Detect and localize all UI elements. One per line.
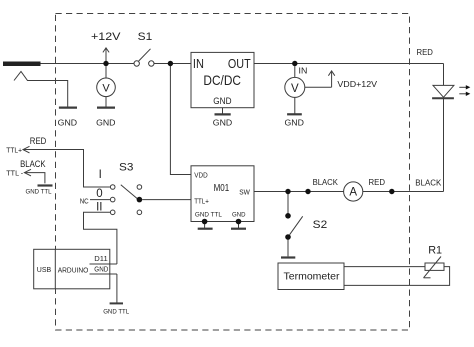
svg-text:V: V	[102, 82, 110, 94]
svg-text:ARDUINO: ARDUINO	[58, 265, 89, 274]
svg-text:GND: GND	[94, 266, 108, 273]
svg-text:R1: R1	[428, 244, 442, 256]
svg-text:Termometer: Termometer	[284, 271, 341, 282]
svg-text:GND TTL: GND TTL	[26, 189, 52, 196]
svg-text:BLACK: BLACK	[313, 178, 339, 187]
svg-text:USB: USB	[37, 265, 51, 274]
svg-text:VDD+12V: VDD+12V	[337, 80, 377, 89]
svg-text:A: A	[349, 187, 357, 199]
svg-text:DC/DC: DC/DC	[203, 73, 241, 88]
svg-text:TTL+: TTL+	[6, 146, 22, 155]
svg-text:I: I	[99, 169, 102, 181]
svg-text:D11: D11	[94, 256, 108, 263]
svg-text:IN: IN	[193, 56, 204, 71]
svg-text:GND: GND	[58, 117, 77, 127]
svg-text:0: 0	[96, 188, 102, 200]
svg-text:RED: RED	[30, 136, 47, 147]
svg-text:II: II	[96, 202, 102, 214]
svg-text:GND: GND	[213, 96, 232, 106]
svg-text:GND: GND	[213, 117, 232, 127]
svg-text:GND: GND	[285, 117, 304, 127]
svg-text:GND: GND	[232, 212, 246, 219]
svg-text:TTL+: TTL+	[194, 197, 209, 206]
svg-text:TTL -: TTL -	[6, 169, 23, 178]
svg-text:GND TTL: GND TTL	[195, 212, 222, 219]
svg-text:M01: M01	[214, 183, 230, 194]
svg-text:GND TTL: GND TTL	[103, 309, 129, 316]
svg-text:OUT: OUT	[228, 56, 251, 71]
svg-text:BLACK: BLACK	[20, 159, 45, 169]
svg-text:GND: GND	[96, 117, 115, 127]
svg-text:IN: IN	[299, 66, 308, 76]
svg-text:+12V: +12V	[91, 31, 121, 43]
svg-text:VDD: VDD	[194, 170, 207, 179]
svg-text:BLACK: BLACK	[415, 178, 442, 187]
svg-text:RED: RED	[417, 48, 434, 57]
svg-text:NC: NC	[80, 198, 89, 205]
svg-text:V: V	[291, 83, 299, 95]
svg-text:RED: RED	[369, 178, 386, 187]
svg-text:S1: S1	[138, 31, 153, 43]
svg-text:SW: SW	[239, 189, 250, 196]
svg-text:S3: S3	[119, 162, 133, 174]
svg-text:S2: S2	[313, 219, 328, 231]
